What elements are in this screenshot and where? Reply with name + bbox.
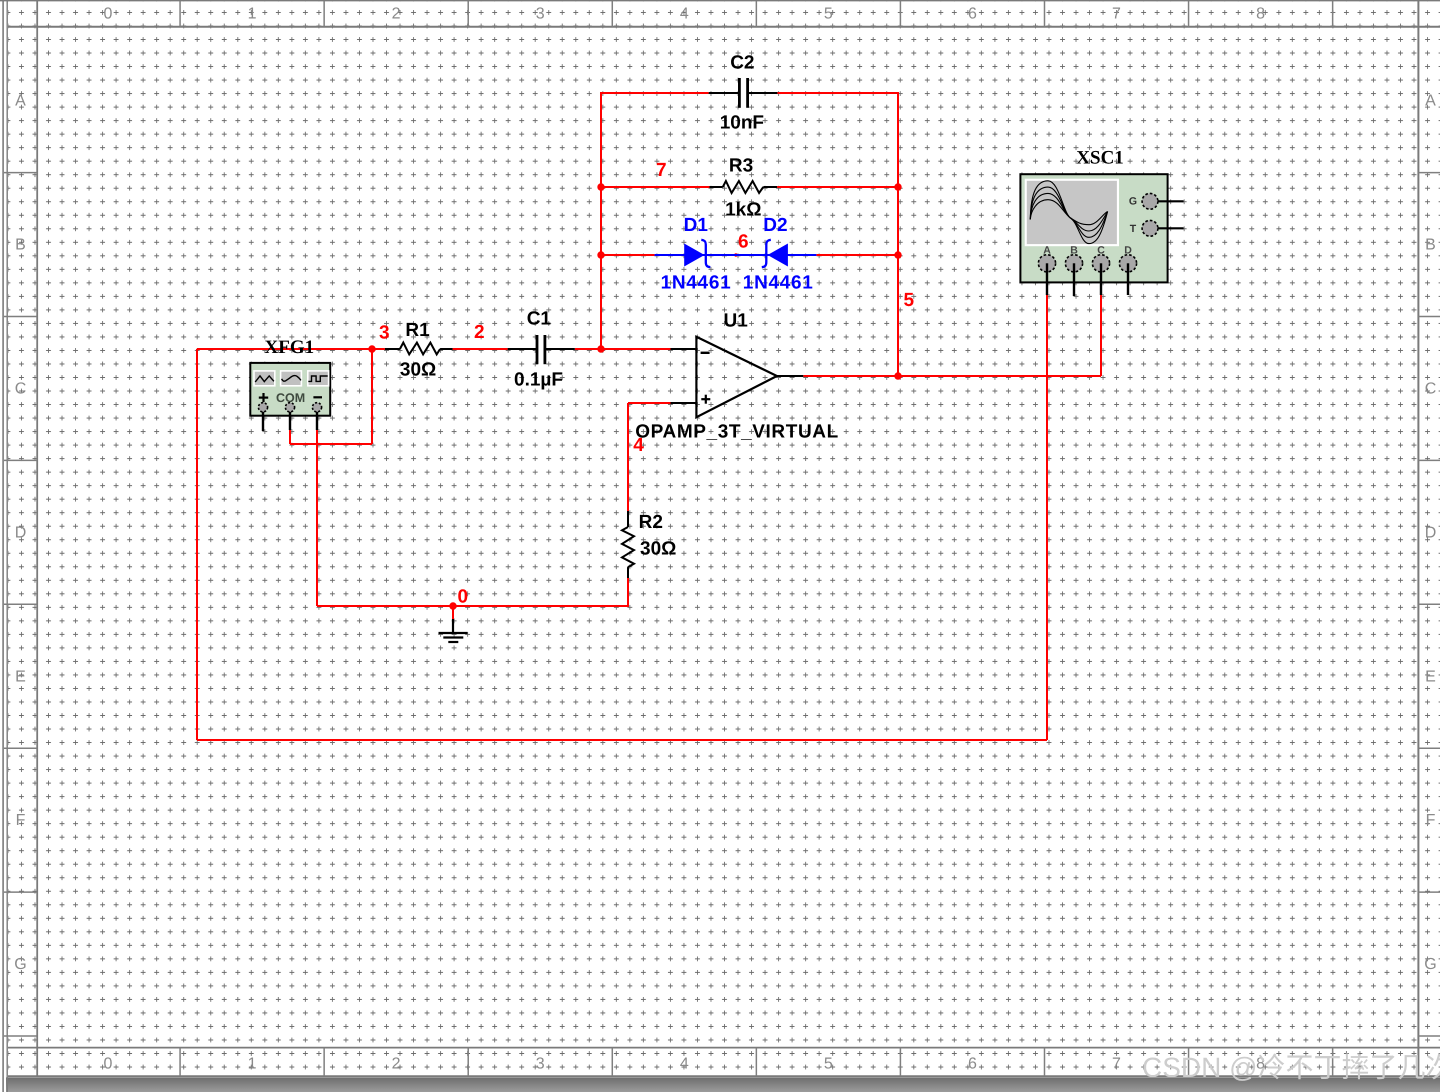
svg-text:5: 5 [904,290,915,311]
svg-text:OPAMP_3T_VIRTUAL: OPAMP_3T_VIRTUAL [635,421,839,442]
svg-text:6: 6 [968,1055,977,1072]
svg-text:F: F [16,812,26,829]
svg-text:1kΩ: 1kΩ [725,199,761,220]
svg-text:7: 7 [1112,5,1121,22]
svg-text:R2: R2 [639,512,663,533]
svg-text:0: 0 [458,586,469,607]
svg-text:0.1µF: 0.1µF [514,370,563,391]
svg-text:1: 1 [248,5,257,22]
svg-text:A: A [15,93,26,110]
svg-text:1N4461: 1N4461 [661,272,732,293]
svg-text:T: T [1130,223,1137,235]
svg-text:D1: D1 [684,215,709,236]
svg-text:5: 5 [824,5,833,22]
svg-text:7: 7 [1112,1055,1121,1072]
svg-text:3: 3 [379,322,390,343]
svg-text:G: G [14,956,26,973]
svg-text:2: 2 [392,5,401,22]
svg-text:3: 3 [536,1055,545,1072]
svg-text:C1: C1 [527,308,552,329]
svg-text:1N4461: 1N4461 [743,272,814,293]
svg-text:CSDN @冷不丁摔了几次: CSDN @冷不丁摔了几次 [1142,1052,1440,1083]
svg-text:3: 3 [536,5,545,22]
svg-text:XFG1: XFG1 [265,337,315,358]
svg-text:30Ω: 30Ω [400,360,436,381]
svg-text:R3: R3 [729,155,753,176]
svg-text:R1: R1 [405,320,430,341]
svg-text:C: C [1425,381,1437,398]
svg-text:G: G [1129,196,1137,208]
svg-text:XSC1: XSC1 [1076,148,1124,169]
svg-text:4: 4 [680,1055,689,1072]
svg-text:D2: D2 [763,215,787,236]
svg-text:1: 1 [248,1055,257,1072]
svg-text:7: 7 [656,160,667,181]
svg-text:COM: COM [276,391,305,405]
svg-text:B: B [15,237,26,254]
svg-text:6: 6 [968,5,977,22]
svg-text:2: 2 [392,1055,401,1072]
svg-text:U1: U1 [724,310,749,331]
svg-text:G: G [1424,956,1436,973]
svg-text:E: E [1425,668,1436,685]
svg-text:0: 0 [104,1055,113,1072]
svg-text:5: 5 [824,1055,833,1072]
svg-text:E: E [15,668,26,685]
svg-text:30Ω: 30Ω [640,539,676,560]
svg-text:C: C [15,381,27,398]
svg-text:D: D [1425,524,1437,541]
svg-text:6: 6 [738,231,749,252]
svg-text:2: 2 [474,322,485,343]
svg-text:C2: C2 [730,52,754,73]
svg-text:D: D [15,524,27,541]
svg-text:F: F [1426,812,1436,829]
svg-text:10nF: 10nF [720,112,764,133]
svg-text:8: 8 [1256,5,1265,22]
svg-text:A: A [1425,93,1436,110]
svg-text:B: B [1425,237,1436,254]
svg-text:0: 0 [104,5,113,22]
svg-text:4: 4 [633,435,644,456]
svg-text:4: 4 [680,5,689,22]
